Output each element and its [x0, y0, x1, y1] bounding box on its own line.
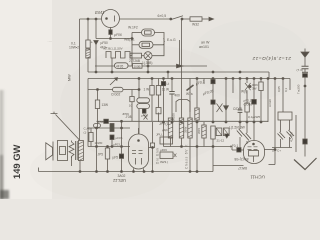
capacitor x226 with triangle plate	[225, 79, 227, 106]
svg-text:Am30: Am30	[268, 99, 272, 107]
switch cross x247	[246, 79, 248, 84]
capacitor oval JP06	[94, 124, 101, 128]
coil hatched x190 lower	[188, 118, 192, 138]
svg-text:400: 400	[175, 94, 181, 98]
svg-text:6×0,5: 6×0,5	[158, 14, 167, 18]
coil hatched x170.5 lower	[168, 118, 172, 138]
switch S1 contact dots	[170, 18, 172, 20]
wire between cans	[139, 102, 141, 105]
node junction lamp line x148 on H3	[147, 65, 149, 67]
resistor R2 13W	[95, 100, 99, 109]
wire H1 antenna line left	[80, 18, 102, 20]
wire x240 long	[239, 79, 241, 111]
node junction H2 x110.5	[110, 38, 112, 40]
svg-text:µF5: µF5	[113, 156, 119, 160]
tube V2 top lead	[138, 128, 140, 134]
wire line y146.5 middle	[164, 146, 233, 148]
svg-text:µF·C+: µF·C+	[273, 149, 282, 153]
wire antenna stem	[304, 58, 306, 67]
node dot x275 y149.5	[274, 149, 276, 151]
wire y89.5 to grid x139	[123, 89, 139, 91]
capacitor diagonal pair right	[287, 130, 295, 138]
wire box left leg	[280, 120, 282, 132]
scan shading bottom-left edge	[0, 90, 5, 199]
capacitor antenna series bars	[302, 66, 309, 69]
capacitor block at x121.5	[119, 154, 123, 158]
svg-text:35W: 35W	[184, 127, 188, 133]
speaker driver bar	[52, 142, 54, 161]
tube V2 UEL11 envelope	[129, 134, 149, 169]
svg-text:µF05: µF05	[116, 136, 123, 140]
svg-text:µF02: µF02	[141, 114, 148, 118]
svg-text:JP09: JP09	[122, 112, 129, 116]
svg-text:E.u.G: E.u.G	[167, 38, 176, 42]
svg-text:µF0,1: µF0,1	[230, 144, 238, 148]
trimmer cross switch right of x213	[217, 104, 223, 113]
svg-text:µF(L: µF(L	[162, 128, 169, 132]
wire x97.5 below R2	[97, 109, 99, 129]
resistor C/D29	[130, 53, 142, 58]
wire x190	[189, 79, 191, 119]
node dots y128	[96, 127, 98, 129]
trimmer cross below T2	[144, 115, 148, 120]
bottom bus left tick	[38, 168, 40, 172]
output transformer winding hatched	[78, 141, 83, 161]
capacitor block on antenna line	[303, 139, 307, 144]
svg-text:3W: 3W	[252, 87, 257, 91]
svg-text:Lt: Lt	[167, 82, 170, 86]
wire H1 right of tube	[120, 18, 171, 20]
tube V1 magic eye envelope	[102, 10, 120, 28]
twin trimmer boxes 21-12	[216, 128, 222, 136]
svg-text:JP5: JP5	[98, 153, 104, 157]
svg-text:11 W: 11 W	[162, 88, 169, 92]
scan mottling	[60, 45, 240, 165]
switch S1 lever	[171, 16, 183, 20]
tuning arrow head	[177, 64, 184, 68]
trimmer x right of box	[174, 154, 177, 157]
antenna input T-bar	[51, 112, 58, 114]
speaker frame box	[58, 141, 68, 161]
svg-text:MW: MW	[68, 74, 72, 81]
potentiometer wiper arrow	[110, 79, 117, 85]
resistor box right of V2 lower	[160, 152, 173, 159]
capacitor block x112 lower	[110, 135, 114, 140]
svg-text:JPLL: JPLL	[156, 133, 163, 137]
coil hatched x197	[196, 79, 198, 109]
wire H3 oscillator line left	[95, 65, 115, 67]
node dots bottom bus	[79, 171, 81, 173]
wire H1 between switch and resistor W32	[182, 18, 190, 20]
resistor R4 11W on x158.5	[158, 79, 160, 86]
oscillator coil socket box	[176, 100, 190, 113]
capacitor diagonal pair left	[278, 132, 286, 140]
tube V2 pins	[134, 168, 144, 171]
wire x233 stub	[232, 79, 234, 94]
wire x296	[295, 115, 297, 152]
node junction on H1 at x88	[87, 18, 89, 20]
svg-text:C/D65: C/D65	[233, 107, 242, 111]
bus step up at x213	[213, 166, 244, 172]
wire antenna down line	[304, 77, 306, 139]
capacitor box right of V2 upper	[160, 137, 173, 144]
svg-text:W.1F2: W.1F2	[128, 26, 138, 30]
node dots bus B2	[138, 78, 140, 80]
bus B2	[88, 78, 290, 80]
svg-text:(7·3): (7·3)	[297, 68, 303, 72]
capacitor right of V2 on x152.5	[152, 122, 154, 143]
wire vertical x97.5	[97, 90, 99, 101]
node dot x152.5 y147.5	[152, 147, 154, 149]
svg-text:Chass 6V lt: Chass 6V lt	[185, 144, 189, 169]
capacitor 200B block	[133, 64, 143, 69]
resistor W32	[190, 17, 202, 21]
tube V3 right lead	[265, 149, 276, 151]
wire y147.5 right	[272, 147, 292, 149]
wire vertical x181 from switch to tuning	[181, 20, 183, 66]
wire vertical x121.5	[121, 121, 123, 154]
coil box left of T1	[131, 90, 133, 97]
capacitor C2 block on V1 lead	[109, 30, 112, 35]
svg-text:0,1µ4W5: 0,1µ4W5	[248, 115, 260, 119]
svg-text:Tra300: Tra300	[297, 84, 301, 94]
wire box W1F2 left to x132	[132, 32, 142, 34]
wire H2	[96, 38, 132, 40]
svg-text:8W(2)+08: 8W(2)+08	[234, 157, 248, 161]
coil hatched x204	[203, 122, 205, 125]
svg-text:4F26: 4F26	[116, 65, 123, 69]
capacitor bars x240	[238, 110, 243, 112]
capacitor diagonal on x247	[244, 133, 251, 141]
speaker LS cone	[46, 143, 53, 160]
svg-text:W8(1Δ: W8(1Δ	[124, 38, 135, 42]
resistor x213 lower	[211, 126, 215, 139]
wire vertical x79.5 long left rail	[79, 19, 81, 140]
svg-text:149 GW: 149 GW	[11, 144, 22, 179]
resistor x268	[267, 79, 269, 123]
wire vertical x96.5 lower	[96, 128, 98, 172]
wire vertical x96 to H2	[95, 19, 97, 39]
arrow to antenna terminal	[209, 17, 214, 21]
svg-text:A(7,B(1,11,50V: A(7,B(1,11,50V	[103, 47, 123, 51]
wire box W1F2 right loop to box WA1	[153, 33, 164, 45]
node dot x305 y86	[304, 85, 306, 87]
wire x283	[282, 79, 284, 113]
wire V2 right lead	[149, 147, 153, 149]
wire x290 stub from bus	[289, 79, 291, 91]
resistor x261	[260, 79, 262, 83]
svg-text:1 W: 1 W	[144, 88, 150, 92]
capacitor block Lt on x163.5	[163, 79, 165, 82]
tube V3 bottom right lead	[269, 164, 276, 166]
svg-text:an W: an W	[201, 41, 210, 45]
tube V1 cathode dot	[106, 18, 108, 20]
node dots y146.5	[181, 146, 183, 148]
wire x88 below B2	[87, 79, 89, 147]
svg-text:10W0: 10W0	[95, 141, 103, 145]
ground earth V symbol	[294, 158, 317, 170]
tube V3 anode box	[249, 151, 259, 157]
capacitor second bars with block	[302, 71, 308, 73]
svg-text:W(l): W(l)	[241, 90, 247, 94]
wire lamp bottom to H3 and B1	[147, 60, 149, 72]
resistor hollow on x247	[245, 103, 249, 112]
node junction x132 on H2	[131, 38, 133, 40]
svg-text:C/D60: C/D60	[244, 103, 253, 107]
wire diagonal lead-in	[56, 115, 80, 141]
resistor vertical hatched x181 lower	[181, 79, 183, 119]
svg-text:µF06: µF06	[160, 148, 167, 152]
wire x275 to tube V3	[274, 79, 276, 151]
wire H3 middle	[128, 65, 133, 67]
resistor small 11W box	[156, 108, 161, 114]
wire tube V1 cap lead	[110, 28, 112, 39]
svg-text:21=2,5(4)Ω=12: 21=2,5(4)Ω=12	[252, 55, 292, 61]
tube V2 cathode bars	[136, 158, 142, 165]
wire x112 staircase to bus B1	[111, 58, 113, 72]
wire stub x204	[203, 79, 205, 85]
tube V1 anode bar	[114, 16, 116, 22]
bottom bus	[39, 171, 214, 173]
svg-text:UCH11: UCH11	[250, 175, 265, 180]
node dot x139 y89.5	[138, 89, 140, 91]
wire vertical x132	[131, 33, 133, 67]
output transformer core lines	[76, 141, 78, 160]
svg-text:13W: 13W	[102, 103, 109, 107]
IF transformer WA1 can	[139, 41, 153, 48]
svg-text:0,05: 0,05	[277, 86, 281, 92]
wire transformer bottom to bus	[79, 161, 81, 172]
svg-text:21-12: 21-12	[217, 139, 225, 143]
IF can T1	[137, 98, 150, 103]
svg-text:EM1: EM1	[95, 10, 105, 15]
tube V2 grid dashes	[132, 151, 143, 154]
coupling capacitor vertical x112	[110, 124, 114, 132]
svg-text:JP0b: JP0b	[97, 120, 104, 124]
wire x181 B1 to B2	[181, 66, 183, 79]
bus B1	[88, 71, 269, 73]
svg-text:.·—: .·—	[47, 39, 52, 43]
wire H3 right with tuning arrow	[142, 65, 207, 67]
svg-text:0,1: 0,1	[284, 87, 288, 92]
wire cathode line y146.5	[88, 146, 130, 148]
resistor JP5	[105, 148, 109, 159]
tube V3 cathode lead	[253, 156, 255, 162]
wire x88 choke to bus B1	[87, 58, 89, 72]
svg-text:(1·: (1·	[84, 131, 88, 135]
wire vertical x88 upper	[87, 19, 89, 40]
svg-text:3A02: 3A02	[118, 174, 126, 178]
resistor C/G02 can	[113, 87, 124, 92]
wire box right leg	[289, 120, 291, 130]
svg-text:0W3·(: 0W3·(	[160, 160, 168, 164]
svg-text:W32: W32	[192, 23, 199, 27]
node dots bus B1	[95, 71, 97, 73]
wire tuning gang double line	[179, 40, 181, 66]
lamp LA1 dial light	[144, 52, 152, 60]
wire vertical x107.5 with resistor JP5	[107, 147, 109, 149]
svg-text:W100: W100	[172, 113, 176, 121]
tube V3 UCH11 envelope	[244, 141, 265, 164]
svg-text:µF03: µF03	[113, 143, 120, 147]
svg-text:8W17: 8W17	[238, 166, 247, 170]
tube V3 left lead with capacitor block	[232, 147, 244, 151]
node dot x240 y150	[239, 149, 241, 151]
capacitor blob on y121	[104, 119, 109, 123]
padder trimmer 4F26 can	[115, 63, 129, 69]
svg-text:an101: an101	[199, 45, 209, 49]
capacitor blocks x213	[212, 79, 214, 80]
svg-text:UEL11: UEL11	[112, 178, 126, 183]
svg-text:1(,35B): 1(,35B)	[142, 61, 152, 65]
IF transformer W1F2 can	[142, 29, 155, 36]
capacitor C4 bars on x172	[171, 79, 173, 92]
inductor L1 hatched choke	[86, 49, 90, 58]
capacitor block right of T2	[142, 109, 146, 113]
svg-text:4,5·2M: 4,5·2M	[290, 132, 294, 142]
svg-text:C/G02: C/G02	[111, 93, 120, 97]
wire coupling row y128	[88, 127, 130, 129]
wire AVC line y89.5	[88, 89, 113, 91]
field coil zigzag	[69, 142, 74, 156]
wire lamp right to x164	[152, 45, 164, 56]
tube V2 top dot	[138, 140, 140, 142]
resistor R1 0,1/10W	[86, 40, 90, 48]
resistor on x91	[90, 128, 92, 133]
node junction x97.5 on y89.5	[97, 89, 99, 91]
wire vertical x139 grid lead	[138, 79, 140, 98]
wire stub x168	[167, 72, 169, 79]
svg-text:10W•2: 10W•2	[69, 46, 79, 50]
node junction on H1 at x96	[95, 18, 97, 20]
svg-text:µF50: µF50	[101, 41, 109, 45]
capacitor block x254	[253, 79, 255, 100]
svg-text:µF06: µF06	[114, 33, 122, 37]
capacitor C1 electrolytic + triangle	[94, 41, 98, 45]
svg-text:27726B: 27726B	[129, 59, 140, 63]
wire field coil bottom to bus	[71, 156, 73, 166]
wire x96 below C1 to bus B1	[95, 45, 97, 73]
speaker voice coil box	[60, 147, 66, 155]
svg-text:W15: W15	[197, 128, 201, 135]
wire H1 to arrow	[202, 18, 209, 20]
wire box WA1 left to x132	[132, 44, 139, 46]
resistor diagonal W7a	[187, 85, 194, 91]
svg-text:L(1,5)0,3W: L(1,5)0,3W	[229, 126, 245, 130]
wire x139 to tube V2 top	[138, 109, 140, 134]
IF can T2	[137, 104, 150, 109]
wire B1 step down at right end	[268, 72, 270, 79]
svg-text:W7a: W7a	[186, 92, 193, 96]
resistor R3 1W on x152	[151, 79, 153, 86]
wire to lamp	[142, 55, 145, 57]
svg-text:Die Elek: Die Elek	[156, 147, 160, 164]
antenna symbol top right	[304, 49, 306, 53]
svg-text:10: 10	[129, 103, 133, 107]
coil bank band switch staircase	[106, 52, 132, 59]
wire grid line y122	[97, 120, 269, 122]
svg-text:JP0·(1: JP0·(1	[159, 122, 169, 126]
svg-text:}: }	[163, 39, 165, 45]
wire x275 below	[274, 150, 276, 165]
tube V3 grid dashes	[248, 147, 258, 150]
svg-text:200B: 200B	[134, 64, 141, 68]
node dots y122	[121, 120, 123, 122]
wire lamp row left	[130, 52, 132, 56]
tube V3 top dot	[253, 143, 255, 145]
capacitor diagonal on x240	[237, 129, 244, 137]
node dot x254 on y122	[253, 121, 255, 123]
transformer box right	[278, 112, 292, 120]
